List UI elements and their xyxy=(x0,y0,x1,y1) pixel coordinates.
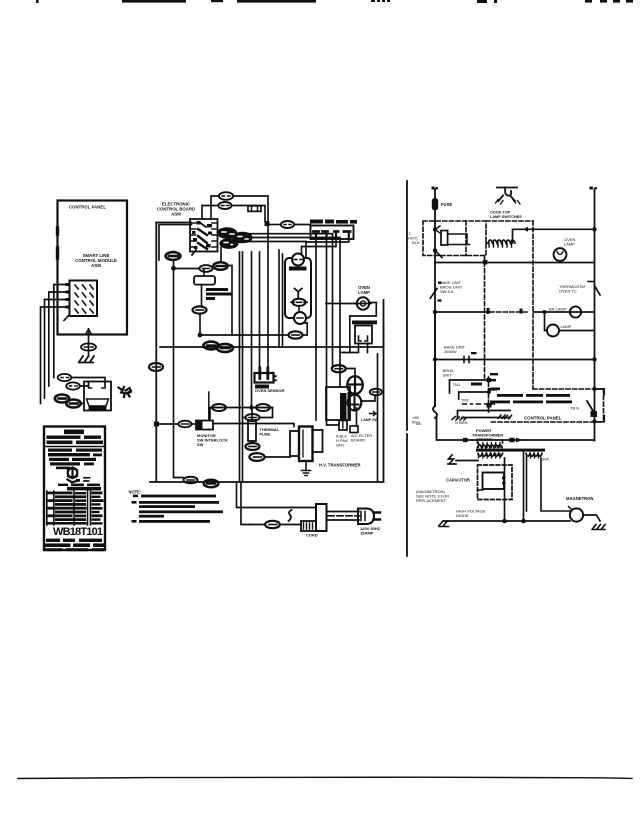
power module box xyxy=(194,269,215,285)
connector oval on left wire xyxy=(149,363,163,371)
svg-text:2650W: 2650W xyxy=(444,349,457,354)
wire ground to secondary xyxy=(456,460,478,462)
door switch left lead xyxy=(349,316,351,353)
door switch header xyxy=(352,321,377,325)
label thermal fuse xyxy=(260,427,280,437)
arrow lamp direction xyxy=(370,412,377,416)
chassis bottom wire xyxy=(150,481,384,483)
wire lamp right loop xyxy=(350,303,377,317)
cord wire down 1 xyxy=(237,482,317,508)
rail top marks xyxy=(590,187,597,190)
bus wire row2 xyxy=(435,262,595,264)
junction node xyxy=(433,357,437,361)
wire O2 right xyxy=(232,206,265,222)
junction node xyxy=(198,333,203,338)
wire node to O4 xyxy=(176,268,200,270)
switch blade xyxy=(435,251,442,258)
plate title bar xyxy=(64,430,84,435)
bottom rule xyxy=(18,777,632,778)
pin wire P1 xyxy=(315,239,317,420)
svg-text:120V/24V: 120V/24V xyxy=(476,438,493,442)
oven sensor connector xyxy=(255,373,276,383)
stirrer motor box xyxy=(285,254,311,319)
power supply plug box xyxy=(84,382,111,412)
svg-text:COOK TOP: COOK TOP xyxy=(490,211,511,215)
right inner wire xyxy=(377,354,379,482)
svg-text:BR LAMP: BR LAMP xyxy=(549,307,567,312)
wire O6 to node xyxy=(199,314,201,335)
element ticks xyxy=(464,357,469,363)
connector oval O13 xyxy=(212,404,226,411)
filament lead pair xyxy=(527,458,571,511)
ribbon wire 3 xyxy=(45,300,66,399)
transformer T2 primary xyxy=(478,443,503,448)
right rail N xyxy=(594,189,596,441)
transformer secondary xyxy=(478,454,503,459)
wire junction to O3 xyxy=(270,224,282,226)
svg-text:TM1: TM1 xyxy=(453,383,461,387)
fuse F2 xyxy=(432,198,438,211)
oven lamp xyxy=(355,297,371,309)
cluster drop stub xyxy=(221,242,234,263)
wire O17 to relay xyxy=(265,456,290,458)
connector oval O7 xyxy=(289,331,303,338)
plate dash row xyxy=(58,484,100,486)
label smart line control module xyxy=(75,253,117,268)
chassis left wire xyxy=(155,223,157,482)
label bake element xyxy=(440,280,463,294)
wire lamp to O7 xyxy=(303,323,308,335)
wire A1 down to node xyxy=(173,260,175,268)
oval A1 xyxy=(166,252,181,260)
svg-text:FUSE: FUSE xyxy=(260,432,271,437)
down bird mark xyxy=(295,289,302,299)
junction node xyxy=(521,519,526,524)
svg-text:SW: SW xyxy=(197,442,204,447)
svg-text:REPLACEMENT: REPLACEMENT xyxy=(416,498,447,503)
wire magnetron to ground xyxy=(583,515,600,521)
label plug xyxy=(360,526,381,536)
cord squiggle icon xyxy=(119,387,132,397)
svg-text:CONTROL PANEL: CONTROL PANEL xyxy=(524,416,562,421)
svg-text:MAGNETRON: MAGNETRON xyxy=(566,496,593,501)
bus wire row4 xyxy=(435,359,595,361)
wire module to O6 xyxy=(201,285,203,307)
label L1 hot xyxy=(407,231,420,246)
aux box xyxy=(339,421,347,431)
junction node xyxy=(433,227,437,231)
svg-text:SW 8 A: SW 8 A xyxy=(440,289,454,294)
wire node to monitor box xyxy=(159,423,179,425)
junction node xyxy=(592,227,596,231)
power plug xyxy=(358,509,380,525)
svg-text:LAMP SWITCHES: LAMP SWITCHES xyxy=(490,215,522,219)
wire O10 to monitor box xyxy=(192,423,196,425)
thermal cutout symbol xyxy=(496,188,521,205)
svg-text:WB18T101: WB18T101 xyxy=(53,526,103,538)
label bake unit xyxy=(444,345,466,355)
svg-text:BOARD: BOARD xyxy=(351,438,365,443)
plate paragraph xyxy=(48,449,102,470)
wire O13 left drop xyxy=(209,408,211,421)
left rail L1 xyxy=(434,189,436,406)
thermal fuse F1 xyxy=(248,408,256,444)
wire O18 to terminal xyxy=(250,524,301,526)
hv bottom bus xyxy=(443,520,570,522)
dashed interlock box xyxy=(423,221,604,422)
label power transformer xyxy=(472,428,503,442)
svg-text:BLK: BLK xyxy=(412,240,420,245)
door box corner brackets xyxy=(598,389,605,422)
contact bar xyxy=(471,383,482,386)
arrow on primary bus xyxy=(516,438,522,443)
connector T1 xyxy=(248,206,261,212)
connector oval O14 xyxy=(256,404,270,411)
ribbon wire 1 xyxy=(54,285,66,378)
left margin fragments xyxy=(488,373,498,391)
connector oval O4 xyxy=(199,265,212,272)
svg-text:ASM: ASM xyxy=(171,212,181,217)
junction cluster xyxy=(487,378,492,408)
MID-SECTION xyxy=(129,192,384,537)
wire oval A to plug xyxy=(71,378,105,383)
connector oval O15 xyxy=(246,414,260,421)
svg-text:5A: 5A xyxy=(416,421,421,426)
rail top marks xyxy=(432,187,438,190)
relay contact TM1 xyxy=(450,380,489,393)
label dc power supply xyxy=(206,288,232,300)
cord wire down 2 xyxy=(241,482,250,525)
wire O5 to inner box edge xyxy=(228,266,233,336)
dash-dot link xyxy=(463,403,495,405)
lamp stem xyxy=(559,261,561,263)
clean lamp B3 xyxy=(547,325,559,337)
strain relief squiggle xyxy=(289,510,292,521)
primary stubs xyxy=(478,440,503,443)
branch to clean lamp xyxy=(545,312,547,331)
LEFT-SECTION xyxy=(41,201,132,412)
bus wire row3 right xyxy=(534,311,595,313)
plate border xyxy=(44,427,105,551)
bus wire row3 dashed part xyxy=(490,311,529,313)
wire O14 corner xyxy=(270,408,273,418)
wire O11 to motor xyxy=(346,369,355,377)
broil lamp B2 xyxy=(570,306,581,317)
label monitor switch xyxy=(197,433,228,447)
wire O15 row xyxy=(244,417,273,419)
svg-text:CAPACITOR: CAPACITOR xyxy=(446,478,470,483)
junction node xyxy=(154,422,159,427)
chassis ground squiggle xyxy=(448,455,456,464)
plate table header bar xyxy=(67,487,101,491)
connector oval O18 xyxy=(265,521,280,528)
wire cluster to right mid xyxy=(251,238,340,388)
long vertical wire L2 xyxy=(242,252,244,482)
ribbon wire 4 xyxy=(41,307,66,404)
TB door switch xyxy=(587,357,597,423)
bus junction hash marks xyxy=(487,308,523,314)
filament winding xyxy=(526,454,542,459)
junction node xyxy=(265,221,270,226)
TOP-FRAGMENTS xyxy=(36,0,633,3)
cord middle dashed xyxy=(328,515,360,517)
svg-text:H.V. TRANSFORMER: H.V. TRANSFORMER xyxy=(319,463,361,468)
svg-text:GRY: GRY xyxy=(336,443,345,448)
connector oval C xyxy=(55,395,69,403)
svg-text:TB N: TB N xyxy=(570,406,579,411)
junction node xyxy=(249,405,254,410)
long vertical wire L3 xyxy=(251,252,253,408)
long vertical wire R1 xyxy=(278,250,280,347)
junction node xyxy=(171,266,176,271)
label amps xyxy=(412,415,421,425)
header dashes xyxy=(585,0,592,3)
bake switch blade xyxy=(430,289,437,299)
oven lamp B1 xyxy=(554,248,567,261)
wire node to O7 xyxy=(200,334,289,336)
svg-text:5VA: 5VA xyxy=(542,458,549,462)
back panel connector box xyxy=(311,226,354,240)
wire ovals to plug box xyxy=(81,403,85,405)
relay contact TM2 xyxy=(459,392,489,399)
bus wire row3 xyxy=(435,311,490,313)
interlock coil xyxy=(488,240,515,247)
label hv diode xyxy=(456,509,486,519)
sensor wire 1 xyxy=(259,252,261,373)
secondary lead 2 xyxy=(523,452,525,520)
bottom contact row xyxy=(462,417,510,419)
connector oval O16 xyxy=(246,443,260,450)
svg-text:OVEN SENSOR: OVEN SENSOR xyxy=(255,388,284,393)
label broil xyxy=(443,368,456,378)
label motor bar xyxy=(289,267,307,271)
svg-text:LAMP SW: LAMP SW xyxy=(361,418,379,422)
connector oval O1 xyxy=(219,192,233,200)
relay contact TM3 xyxy=(458,411,511,419)
control board U1 xyxy=(190,219,218,255)
wire lamp left xyxy=(326,303,357,305)
inner connector oval xyxy=(291,299,307,306)
pin wire P2 xyxy=(327,239,340,425)
connector oval B xyxy=(66,382,80,389)
label filter xyxy=(351,433,372,443)
plate table rows xyxy=(48,492,104,525)
junction arrow xyxy=(435,226,440,233)
fan motor double ellipse xyxy=(347,376,363,410)
junction node xyxy=(433,248,437,252)
label back panel terminal xyxy=(310,220,357,224)
junction node xyxy=(502,519,507,524)
transformer core xyxy=(476,449,545,452)
relay ground xyxy=(302,461,311,476)
long wire bus row xyxy=(160,346,384,348)
ribbon wire 2 xyxy=(49,292,66,386)
ground lead from panel xyxy=(88,329,90,356)
chassis right wire xyxy=(383,300,385,482)
label magnetron text xyxy=(416,489,449,503)
capacitor C1 inner box xyxy=(483,473,506,490)
plate logo doodle xyxy=(68,468,90,483)
wire O3 to back panel xyxy=(294,224,310,226)
junction square xyxy=(510,438,515,442)
wire coil left xyxy=(486,242,488,244)
RIGHT-SECTION xyxy=(407,187,606,530)
connector pins xyxy=(66,283,70,309)
monitor switch box xyxy=(196,392,213,430)
sensor wire 2 xyxy=(267,226,269,373)
connector oval O6 xyxy=(193,306,207,313)
dashed door wire xyxy=(383,326,385,346)
chassis top edge xyxy=(156,222,191,224)
svg-text:N BRN: N BRN xyxy=(455,420,468,425)
capacitor inner bottom wire xyxy=(478,489,483,492)
rail to transformer bus xyxy=(437,418,595,440)
wire cluster to right upper xyxy=(236,234,333,365)
connector oval O5 xyxy=(213,262,227,270)
relay transformer K1 xyxy=(290,427,323,462)
label aux xyxy=(336,434,349,448)
connector oval O19 xyxy=(184,477,198,484)
svg-text:ASM: ASM xyxy=(91,263,101,268)
wire O1 left to board xyxy=(211,196,219,219)
chassis ground symbol xyxy=(79,356,94,363)
ground symbol xyxy=(592,525,605,530)
junction square xyxy=(463,438,468,442)
junction node xyxy=(543,310,547,314)
header rule segment xyxy=(237,0,316,3)
cord lines to plug xyxy=(327,512,360,521)
svg-text:CORD: CORD xyxy=(306,533,318,538)
svg-text:TM2: TM2 xyxy=(461,399,469,403)
contact feet xyxy=(452,417,467,421)
wire O1 right xyxy=(233,196,268,221)
connector oval O17 xyxy=(249,453,264,461)
wire O2 left to board xyxy=(202,206,218,220)
wire v3 down left side xyxy=(174,268,184,477)
header dots xyxy=(371,0,375,2)
arrow on wire xyxy=(523,227,528,232)
connector oval O9 xyxy=(217,344,233,352)
svg-text:LAMP: LAMP xyxy=(358,290,370,295)
contact feet marks xyxy=(498,415,512,419)
connector oval O8 xyxy=(203,342,218,350)
connector oval O20 xyxy=(204,480,219,487)
door switch box xyxy=(355,326,372,344)
chassis top edge inner xyxy=(159,225,192,260)
wire clean lamp to rail xyxy=(559,330,595,332)
connector oval O10 xyxy=(178,421,191,428)
connector oval O3 xyxy=(281,221,294,228)
label right rows xyxy=(490,388,572,404)
sensor dark bar xyxy=(255,385,269,389)
connector oval A xyxy=(58,374,72,381)
plate divider xyxy=(44,446,105,448)
plate text row xyxy=(47,436,104,445)
junction node xyxy=(433,310,437,314)
section divider line xyxy=(406,181,408,556)
connector oval O11 xyxy=(332,365,346,372)
tick xyxy=(36,0,39,3)
right switch blade xyxy=(595,286,601,296)
tick xyxy=(494,0,497,3)
svg-text:LAMP: LAMP xyxy=(564,242,575,247)
svg-text:OVEN TC: OVEN TC xyxy=(559,289,577,294)
RATING-PLATE xyxy=(44,427,105,552)
svg-text:CONTROL PANEL: CONTROL PANEL xyxy=(69,205,106,210)
header mark xyxy=(211,0,223,2)
header rule segment xyxy=(122,0,186,3)
fan box xyxy=(326,387,350,420)
long vertical wire R2 xyxy=(282,254,284,347)
secondary lead 1 xyxy=(504,458,506,520)
connector oval O12 xyxy=(370,389,382,395)
capacitor dashed box xyxy=(478,465,513,500)
svg-text:UNIT: UNIT xyxy=(443,373,453,378)
wire board to A1 xyxy=(172,252,174,253)
switch contact marks xyxy=(438,282,442,302)
capacitor bottom stub xyxy=(350,408,358,433)
connector oval D xyxy=(66,400,80,408)
label electronic control board xyxy=(157,202,195,217)
dashed crossing vertical xyxy=(488,377,490,412)
wire motor to O12 xyxy=(361,397,375,402)
svg-text:DIODE: DIODE xyxy=(456,513,469,518)
svg-text:FUSE: FUSE xyxy=(441,202,452,207)
inner lamp circle xyxy=(294,306,306,324)
left rail continues xyxy=(434,312,436,406)
notes text xyxy=(129,490,224,523)
oven lamp label xyxy=(564,237,575,247)
rail squiggle break xyxy=(433,406,437,418)
connector oval on ground lead xyxy=(81,343,96,350)
sensor pin stubs xyxy=(260,368,268,379)
keyboard connector grid xyxy=(64,281,97,321)
right switch tick xyxy=(588,281,593,283)
pin wire P4 xyxy=(306,239,349,258)
pin wire P3 xyxy=(302,239,337,258)
relay coil box xyxy=(441,231,470,246)
label thermostat xyxy=(559,284,587,294)
long vertical wire L1 xyxy=(239,252,241,482)
magnetron V1 xyxy=(569,507,584,522)
header square xyxy=(477,0,487,3)
terminal block TB xyxy=(301,504,327,531)
tiny label fragment xyxy=(471,352,477,354)
arrow into panel xyxy=(86,329,92,334)
control panel box xyxy=(58,201,128,335)
oven lamp label xyxy=(358,285,370,295)
junction square xyxy=(483,260,488,265)
label oven thermal xyxy=(490,211,522,220)
wire top to relay xyxy=(213,424,294,427)
plate bottom rows xyxy=(45,539,105,552)
wire cluster to right lower xyxy=(238,241,307,243)
svg-text:15AMP: 15AMP xyxy=(360,531,374,536)
wire oval B to plug xyxy=(80,382,89,386)
connector oval O2 xyxy=(218,202,231,209)
plate table grid columns xyxy=(47,491,91,525)
svg-text:LAMP: LAMP xyxy=(561,324,572,329)
wire bottom row ovals xyxy=(210,407,273,409)
connector cluster ovals xyxy=(218,228,252,248)
hv ground xyxy=(439,521,449,527)
door switch leads down xyxy=(340,344,368,353)
wire O12 to right edge xyxy=(382,391,383,393)
wire coil up and to rail xyxy=(513,229,595,243)
svg-text:NOTE:: NOTE: xyxy=(129,490,142,495)
